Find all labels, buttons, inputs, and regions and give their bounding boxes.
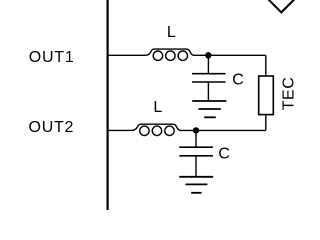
svg-text:L: L — [153, 99, 162, 116]
svg-text:TEC: TEC — [280, 77, 297, 111]
svg-text:C: C — [232, 72, 244, 89]
svg-text:L: L — [167, 24, 176, 41]
svg-text:C: C — [218, 145, 230, 162]
svg-text:OUT2: OUT2 — [29, 119, 75, 136]
svg-text:OUT1: OUT1 — [29, 49, 75, 66]
